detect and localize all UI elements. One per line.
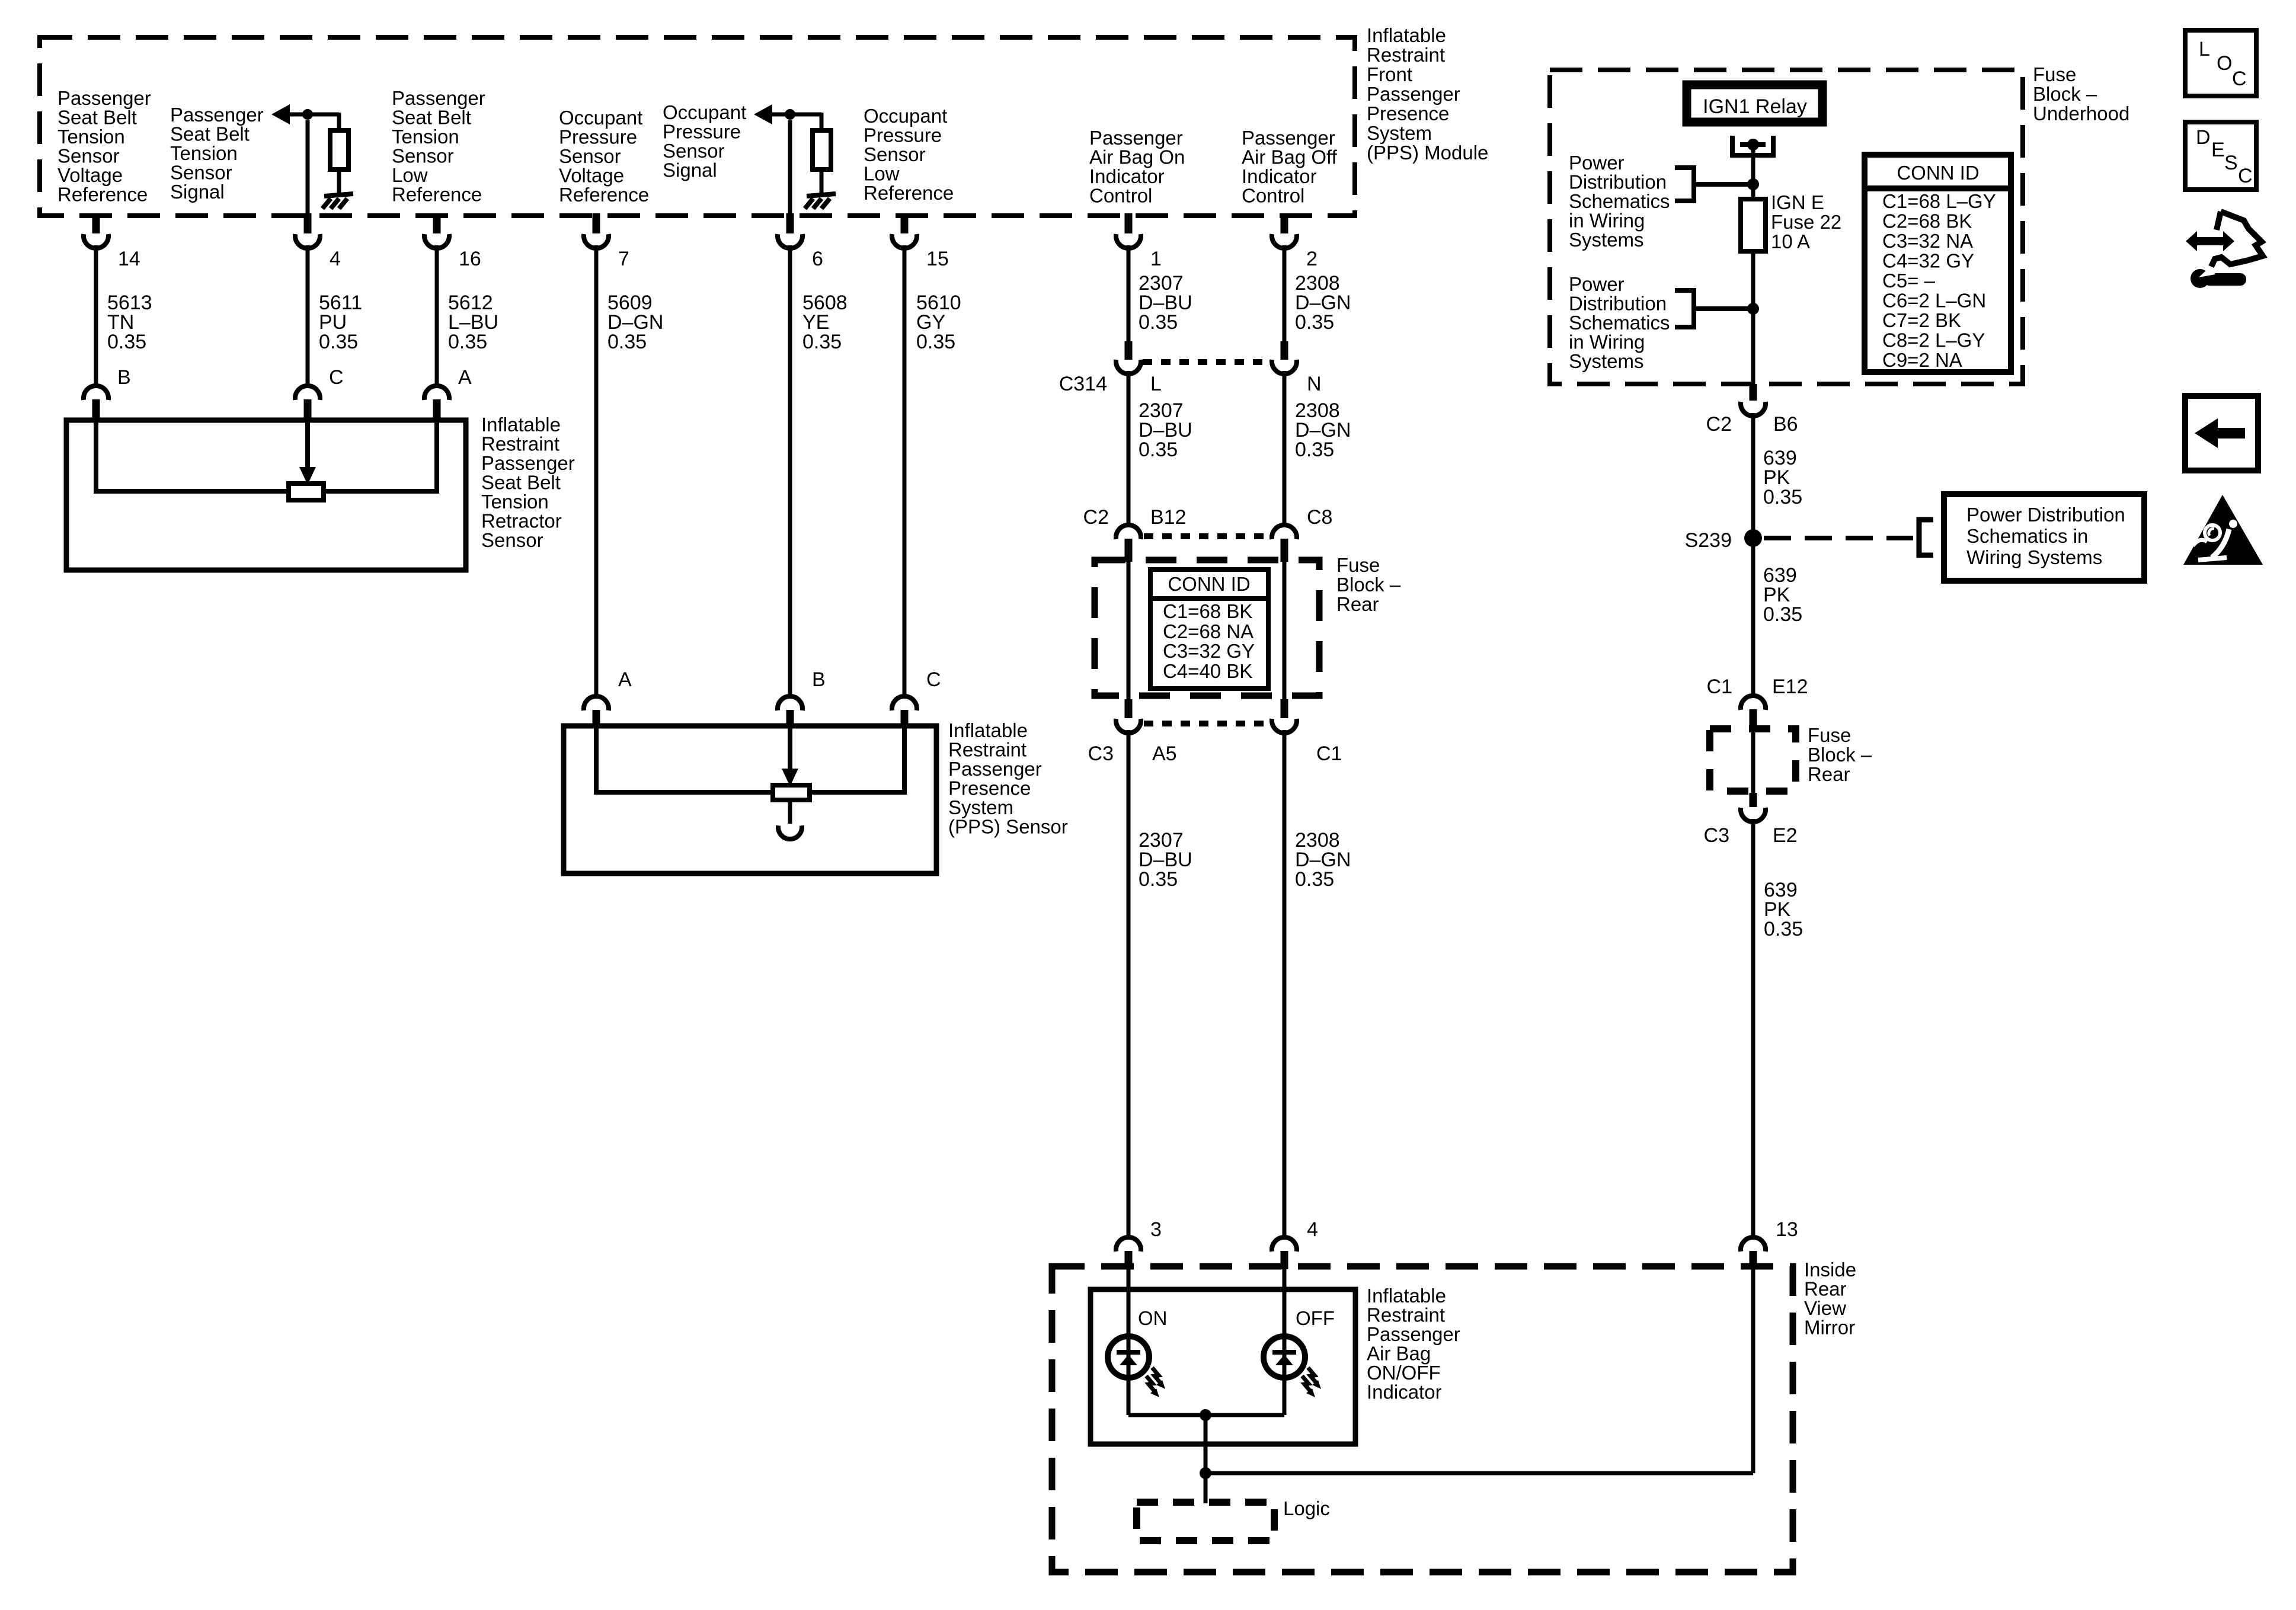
svg-text:Front: Front [1367, 63, 1412, 85]
svg-text:Passenger: Passenger [170, 104, 264, 126]
svg-text:Air Bag Off: Air Bag Off [1242, 146, 1338, 168]
svg-text:Rear: Rear [1804, 1278, 1847, 1300]
svg-text:ON/OFF: ON/OFF [1367, 1362, 1441, 1384]
svg-text:Air Bag On: Air Bag On [1089, 146, 1185, 168]
icon double arrow [2186, 231, 2234, 251]
connector cup - module pin 2 [1272, 234, 1297, 248]
connector pin stub - PPS sensor pin C [901, 710, 909, 725]
svg-text:C: C [2232, 68, 2247, 90]
connector dome - mirror pin 3 [1116, 1237, 1141, 1251]
svg-text:0.35: 0.35 [1139, 868, 1178, 891]
CONN ID table (fuse block underhood) [1865, 155, 2011, 372]
svg-text:Low: Low [864, 163, 900, 185]
connector pin stub - module pin 7 [593, 213, 600, 233]
arrow into module (signal) (seat belt tension) [271, 104, 290, 124]
svg-text:C8=2 L–GY: C8=2 L–GY [1882, 329, 1985, 351]
svg-text:Distribution: Distribution [1569, 293, 1667, 315]
svg-text:C9=2 NA: C9=2 NA [1882, 349, 1962, 371]
svg-text:Passenger: Passenger [948, 758, 1042, 780]
connector cup - module pin 7 [584, 234, 609, 248]
wiper arrowhead (retractor) [299, 467, 316, 485]
svg-text:0.35: 0.35 [1295, 438, 1334, 461]
svg-text:Tension: Tension [57, 126, 125, 148]
connector plane dotted line B12-C8 [1144, 533, 1269, 539]
connector dome - retractor pin C [295, 386, 320, 400]
svg-text:4: 4 [330, 248, 341, 270]
svg-text:3: 3 [1150, 1218, 1162, 1241]
wire 5609 [594, 245, 599, 696]
svg-text:C1: C1 [1316, 742, 1342, 765]
wire - corner down to resistor (seat belt tension) [337, 113, 341, 130]
svg-text:Occupant: Occupant [864, 105, 947, 127]
svg-text:Sensor: Sensor [559, 145, 621, 167]
svg-text:C314: C314 [1059, 373, 1107, 395]
Inflatable Restraint Front Passenger Presence System (PPS) Module dashed box [40, 37, 1355, 216]
svg-text:N: N [1307, 373, 1322, 395]
svg-text:System: System [948, 796, 1013, 818]
svg-text:0.35: 0.35 [607, 331, 647, 353]
svg-text:C2=68 BK: C2=68 BK [1882, 210, 1972, 232]
svg-text:C1=68 L–GY: C1=68 L–GY [1882, 190, 1996, 212]
wire 5610 [903, 245, 907, 696]
svg-text:Control: Control [1242, 185, 1304, 207]
svg-text:Voltage: Voltage [57, 164, 123, 186]
connector dome - mirror pin 4 [1272, 1237, 1297, 1251]
wiper arrowhead (PPS) [782, 769, 798, 786]
svg-text:Tension: Tension [481, 491, 549, 513]
svg-text:10 A: 10 A [1771, 231, 1810, 252]
Inflatable Restraint Passenger Air Bag ON/OFF Indicator box [1091, 1289, 1355, 1444]
wire 5613 [94, 245, 98, 386]
icon outline shape (schematic pointer) [2211, 212, 2263, 267]
svg-text:Schematics in: Schematics in [1966, 525, 2088, 547]
svg-text:Schematics: Schematics [1569, 190, 1670, 212]
wire - pin 3 to ON LED [1127, 1269, 1131, 1415]
svg-text:Indicator: Indicator [1242, 165, 1317, 187]
wire - resistor to ground (occupant pressure) [820, 169, 824, 194]
wire - fuse to B6 [1751, 251, 1755, 384]
junction dot on signal line (occupant pressure) [785, 109, 795, 120]
connector stub - underhood B6 [1750, 384, 1757, 401]
svg-text:13: 13 [1776, 1218, 1798, 1241]
connector cup - C314 L [1116, 360, 1141, 374]
connector stub - C314 N [1281, 341, 1288, 360]
wire 2308 (fuse block rear to mirror) [1283, 730, 1287, 1237]
wire - bracket 2 stem [1694, 306, 1748, 311]
svg-text:Rear: Rear [1808, 763, 1850, 785]
wire - common down to logic [1204, 1415, 1208, 1503]
Fuse Block - Rear small dashed box [1710, 729, 1796, 791]
svg-text:in Wiring: in Wiring [1569, 331, 1645, 353]
open connector cup below PPS resistor [778, 825, 802, 839]
svg-text:Reference: Reference [392, 184, 482, 206]
connector cup - fuse block rear C1 [1272, 719, 1297, 733]
wire - retractor wiper C [305, 420, 310, 467]
svg-text:(PPS) Module: (PPS) Module [1367, 142, 1488, 164]
wire - PPS pin C internal [810, 726, 904, 792]
svg-text:IGN E: IGN E [1771, 191, 1824, 213]
svg-text:Seat Belt: Seat Belt [57, 107, 137, 129]
svg-text:0.35: 0.35 [1295, 868, 1334, 891]
svg-text:B6: B6 [1773, 413, 1798, 436]
svg-text:S239: S239 [1685, 529, 1732, 552]
icon LOC box [2185, 30, 2256, 96]
power distribution bracket 1 [1675, 168, 1694, 201]
svg-text:Block –: Block – [2033, 83, 2097, 105]
connector stub - fuse block rear C1 [1281, 699, 1288, 718]
svg-text:C: C [2238, 165, 2253, 187]
svg-text:(PPS) Sensor: (PPS) Sensor [948, 816, 1068, 838]
svg-text:Block –: Block – [1808, 744, 1872, 766]
svg-text:Sensor: Sensor [481, 529, 543, 551]
svg-text:Fuse: Fuse [2033, 63, 2076, 85]
wire - corner down to resistor (occupant pressure) [820, 113, 824, 130]
svg-text:Indicator: Indicator [1089, 165, 1165, 187]
svg-text:O: O [2217, 52, 2232, 75]
wire - pin 4 to OFF LED [1283, 1269, 1287, 1415]
connector pin stub - retractor pin B [92, 399, 100, 419]
svg-text:Seat Belt: Seat Belt [170, 123, 250, 145]
svg-text:C2=68 NA: C2=68 NA [1163, 620, 1253, 642]
Logic dashed box [1137, 1502, 1274, 1541]
svg-text:Presence: Presence [948, 777, 1031, 799]
connector stub - C1/E12 [1750, 709, 1757, 732]
icon wrench [2191, 266, 2246, 288]
svg-text:Power: Power [1569, 273, 1625, 295]
connector stub - mirror pin 3 [1125, 1251, 1133, 1269]
connector dome - retractor pin B [84, 386, 108, 400]
svg-text:C2: C2 [1706, 413, 1732, 436]
svg-text:E2: E2 [1773, 824, 1798, 847]
ground (module internal) (seat belt tension) [324, 194, 353, 196]
potentiometer resistor (retractor) [289, 484, 324, 500]
splice S239 [1744, 529, 1762, 547]
reference bracket (power distribution) [1919, 520, 1933, 555]
connector stub - C3/E2 [1750, 793, 1757, 807]
wire 2307 through fuse block rear [1127, 562, 1131, 699]
svg-text:L: L [1150, 373, 1162, 395]
svg-text:Passenger: Passenger [1367, 83, 1460, 105]
wire 2308 (C314 to fuse block rear) [1283, 371, 1287, 525]
connector stub - fuse block rear C8 [1281, 539, 1288, 562]
connector pin stub - module pin 15 [901, 213, 909, 233]
connector pin stub - module pin 6 [786, 213, 794, 233]
svg-text:Logic: Logic [1283, 1497, 1330, 1519]
connector cup - module pin 15 [892, 234, 917, 248]
svg-text:C3=32 NA: C3=32 NA [1882, 230, 1973, 252]
svg-text:2: 2 [1306, 248, 1318, 270]
connector pin stub - PPS sensor pin B [786, 710, 794, 725]
connector pin stub - retractor pin A [433, 399, 441, 419]
resistor (module internal pull-down) (seat belt tension) [330, 130, 348, 169]
connector cup - module pin 4 [295, 234, 320, 248]
Power Distribution Schematics in Wiring Systems reference box [1944, 494, 2144, 581]
wire - mirror pin 13 feed horizontal [1205, 1471, 1753, 1475]
svg-text:C4=40 BK: C4=40 BK [1163, 660, 1252, 682]
svg-text:0.35: 0.35 [1763, 486, 1802, 508]
svg-text:Restraint: Restraint [1367, 1304, 1445, 1326]
junction dot bracket 2 [1747, 303, 1759, 315]
svg-text:Tension: Tension [392, 126, 459, 148]
svg-text:Occupant: Occupant [559, 107, 642, 129]
connector pin stub - module pin 1 [1125, 213, 1133, 233]
svg-text:S: S [2224, 152, 2238, 174]
svg-text:Inflatable: Inflatable [481, 414, 561, 436]
svg-text:CONN ID: CONN ID [1897, 162, 1979, 184]
junction dot relay output [1747, 139, 1759, 151]
connector cup - C314 N [1272, 360, 1297, 374]
svg-text:Restraint: Restraint [948, 739, 1027, 761]
svg-text:Passenger: Passenger [57, 87, 151, 109]
icon DESC box [2185, 122, 2256, 190]
connector pin stub - module pin 2 [1281, 213, 1288, 233]
svg-text:Signal: Signal [170, 181, 225, 203]
svg-text:0.35: 0.35 [916, 331, 955, 353]
svg-text:C3: C3 [1704, 824, 1729, 847]
svg-text:6: 6 [812, 248, 823, 270]
CONN ID header separator (underhood) [1865, 185, 2011, 191]
wire - LED common join [1128, 1413, 1284, 1417]
svg-text:Sensor: Sensor [864, 143, 926, 165]
svg-text:C5= –: C5= – [1882, 270, 1936, 292]
svg-text:7: 7 [618, 248, 629, 270]
svg-text:16: 16 [459, 248, 481, 270]
Inflatable Restraint Passenger Seat Belt Tension Retractor Sensor box [66, 420, 466, 570]
wire 2307 (module to C314) [1127, 245, 1131, 343]
svg-text:Power: Power [1569, 152, 1625, 174]
wire - retractor pin B internal [96, 420, 289, 491]
connector pin stub - PPS sensor pin A [593, 710, 600, 725]
svg-text:E12: E12 [1772, 676, 1808, 698]
junction dot on signal line (seat belt tension) [302, 109, 313, 120]
ground (module internal) (occupant pressure) [807, 194, 836, 196]
CONN ID header separator [1150, 596, 1268, 601]
connector cup - C3/E2 [1741, 808, 1766, 822]
svg-text:Fuse 22: Fuse 22 [1771, 211, 1841, 233]
connector plane dotted line A5-C1 [1144, 721, 1269, 726]
svg-text:Inflatable: Inflatable [948, 719, 1028, 741]
svg-text:Pressure: Pressure [663, 121, 741, 143]
relay contact crossbar [1740, 142, 1766, 147]
icon warning triangle pictogram [2193, 520, 2237, 560]
svg-text:Sensor: Sensor [57, 145, 120, 167]
connector dome - fuse block rear B12 [1116, 525, 1141, 539]
svg-text:Signal: Signal [663, 159, 717, 181]
svg-text:Mirror: Mirror [1804, 1317, 1855, 1339]
svg-text:B: B [812, 668, 826, 691]
svg-text:Tension: Tension [170, 142, 238, 164]
svg-text:C2: C2 [1083, 506, 1109, 529]
svg-text:Voltage: Voltage [559, 165, 624, 187]
svg-text:OFF: OFF [1296, 1307, 1335, 1329]
wire 639 (B6 to S239) [1751, 413, 1755, 696]
wire 2307 (C314 to fuse block rear) [1127, 371, 1131, 525]
Inside Rear View Mirror dashed box [1052, 1266, 1793, 1572]
svg-text:C3: C3 [1088, 742, 1114, 765]
wire - PPS wiper B [788, 726, 792, 769]
connector cup - module pin 6 [778, 234, 802, 248]
svg-text:Power Distribution: Power Distribution [1966, 504, 2125, 526]
svg-text:Pressure: Pressure [864, 124, 942, 146]
svg-text:Passenger: Passenger [1367, 1323, 1460, 1345]
svg-text:14: 14 [118, 248, 140, 270]
svg-text:0.35: 0.35 [1295, 311, 1334, 334]
wire 2308 (module to C314) [1283, 245, 1287, 343]
svg-text:L: L [2199, 38, 2210, 60]
svg-text:Fuse: Fuse [1808, 724, 1851, 746]
connector plane dotted line C314 [1143, 359, 1270, 365]
wire - bracket 1 stem [1694, 182, 1748, 187]
svg-text:Passenger: Passenger [392, 87, 485, 109]
connector pin stub - module pin 16 [433, 213, 441, 233]
svg-text:IGN1 Relay: IGN1 Relay [1703, 95, 1807, 118]
svg-text:Fuse: Fuse [1336, 554, 1380, 576]
icon back arrow box [2185, 396, 2258, 470]
svg-text:0.35: 0.35 [1139, 438, 1178, 461]
svg-text:0.35: 0.35 [1763, 603, 1802, 626]
junction dot bracket 1 [1747, 178, 1759, 190]
wire through small fuse block [1751, 732, 1755, 794]
wire - pressure signal down to pin 6 [788, 120, 792, 216]
Fuse Block - Rear dashed box [1095, 560, 1319, 696]
icon warning triangle [2183, 495, 2263, 565]
connector pin stub - module pin 14 [92, 213, 100, 233]
arrow into module (signal) (occupant pressure) [754, 104, 772, 124]
svg-text:0.35: 0.35 [448, 331, 487, 353]
IGN1 Relay box [1687, 85, 1822, 122]
Inflatable Restraint Passenger Presence System (PPS) Sensor box [564, 726, 936, 873]
connector cup - module pin 1 [1116, 234, 1141, 248]
connector stub - mirror pin 4 [1281, 1251, 1288, 1269]
svg-text:Indicator: Indicator [1367, 1381, 1442, 1403]
svg-text:Schematics: Schematics [1569, 312, 1670, 334]
svg-text:Passenger: Passenger [1089, 127, 1183, 149]
svg-text:D: D [2196, 126, 2211, 149]
svg-text:in Wiring: in Wiring [1569, 210, 1645, 232]
resistor (module internal pull-down) (occupant pressure) [813, 130, 831, 169]
connector cup - module pin 14 [84, 234, 108, 248]
icon back arrow [2195, 418, 2245, 448]
svg-text:Pressure: Pressure [559, 126, 637, 148]
svg-text:A: A [618, 668, 632, 691]
svg-text:ON: ON [1138, 1307, 1168, 1329]
connector dome - fuse block rear C8 [1272, 525, 1297, 539]
svg-text:Underhood: Underhood [2033, 103, 2129, 124]
connector dome - mirror pin 13 [1741, 1237, 1766, 1251]
svg-text:0.35: 0.35 [107, 331, 146, 353]
connector dome - PPS sensor pin B [778, 696, 802, 710]
svg-text:CONN ID: CONN ID [1168, 573, 1250, 595]
svg-text:Sensor: Sensor [663, 140, 725, 162]
connector pin stub - retractor pin C [304, 399, 312, 419]
connector dome - C1/E12 [1741, 696, 1766, 710]
svg-text:Inflatable: Inflatable [1367, 1285, 1446, 1307]
svg-text:Inside: Inside [1804, 1259, 1856, 1281]
svg-text:Distribution: Distribution [1569, 171, 1667, 193]
connector cup - fuse block rear A5 [1116, 719, 1141, 733]
wire - seat belt signal down to pin 4 [306, 120, 310, 216]
svg-text:C1: C1 [1707, 676, 1732, 698]
svg-text:Inflatable: Inflatable [1367, 24, 1446, 46]
LED indicator ON [1108, 1336, 1149, 1378]
svg-text:Passenger: Passenger [1242, 127, 1335, 149]
wire 5608 [788, 245, 792, 696]
connector cup - underhood B6 [1741, 402, 1766, 416]
svg-text:0.35: 0.35 [319, 331, 358, 353]
connector stub - fuse block rear A5 [1125, 699, 1133, 718]
svg-text:C8: C8 [1307, 506, 1332, 529]
svg-text:C7=2 BK: C7=2 BK [1882, 309, 1961, 331]
wire 2308 through fuse block rear [1283, 562, 1287, 699]
connector stub - C314 L [1125, 341, 1133, 360]
svg-text:View: View [1804, 1297, 1846, 1319]
power distribution bracket 2 [1675, 290, 1694, 327]
connector stub - fuse block rear B12 [1125, 539, 1133, 562]
svg-text:Systems: Systems [1569, 229, 1644, 251]
connector cup - module pin 16 [424, 234, 449, 248]
fuse IGN E Fuse 22 10A [1741, 199, 1766, 251]
wire 5611 [306, 245, 310, 386]
svg-text:A5: A5 [1152, 742, 1177, 765]
svg-text:Sensor: Sensor [392, 145, 454, 167]
svg-text:Occupant: Occupant [663, 101, 746, 123]
svg-text:C6=2 L–GN: C6=2 L–GN [1882, 290, 1986, 312]
connector dome - PPS sensor pin A [584, 696, 609, 710]
svg-text:C3=32 GY: C3=32 GY [1163, 640, 1255, 662]
LED indicator OFF [1264, 1336, 1305, 1378]
wire - pin 13 down inside mirror [1751, 1269, 1755, 1473]
svg-text:1: 1 [1150, 248, 1162, 270]
wire 639 (E2 to mirror pin 13) [1751, 819, 1755, 1237]
svg-text:0.35: 0.35 [1139, 311, 1178, 334]
svg-text:Seat Belt: Seat Belt [392, 107, 471, 129]
svg-text:0.35: 0.35 [1764, 918, 1803, 940]
svg-text:Reference: Reference [864, 182, 954, 204]
svg-text:Reference: Reference [57, 184, 148, 206]
svg-text:15: 15 [926, 248, 949, 270]
connector pin stub - module pin 4 [304, 213, 312, 233]
svg-text:0.35: 0.35 [802, 331, 842, 353]
CONN ID table (fuse block rear) [1150, 569, 1268, 689]
relay contact bracket [1732, 136, 1773, 155]
connector dome - PPS sensor pin C [892, 696, 917, 710]
wire - below PPS resistor [788, 800, 792, 824]
svg-text:Rear: Rear [1336, 593, 1379, 615]
svg-text:System: System [1367, 122, 1432, 144]
Fuse Block - Underhood dashed box [1550, 70, 2023, 384]
wire - retractor pin A internal [324, 420, 437, 491]
svg-text:4: 4 [1307, 1218, 1318, 1241]
svg-text:C: C [926, 668, 941, 691]
svg-text:Seat Belt: Seat Belt [481, 472, 561, 494]
svg-text:Passenger: Passenger [481, 452, 575, 474]
svg-text:Retractor: Retractor [481, 510, 562, 532]
dashed reference line from S239 [1764, 536, 1913, 540]
wire 2307 (fuse block rear to mirror) [1127, 730, 1131, 1237]
svg-text:C: C [329, 366, 344, 389]
wire - PPS pin A internal [596, 726, 773, 792]
module internal wire - sensor signal horizontal (occupant pressure) [770, 113, 821, 117]
wire - resistor to ground (seat belt tension) [337, 169, 341, 194]
svg-text:C4=32 GY: C4=32 GY [1882, 250, 1974, 272]
svg-text:Air Bag: Air Bag [1367, 1343, 1431, 1365]
svg-text:Sensor: Sensor [170, 162, 232, 184]
svg-text:B12: B12 [1150, 506, 1187, 529]
junction dot at mirror feed [1200, 1467, 1211, 1479]
connector stub - mirror pin 13 [1750, 1251, 1757, 1269]
svg-text:Systems: Systems [1569, 350, 1644, 372]
wire 5612 [435, 245, 439, 386]
